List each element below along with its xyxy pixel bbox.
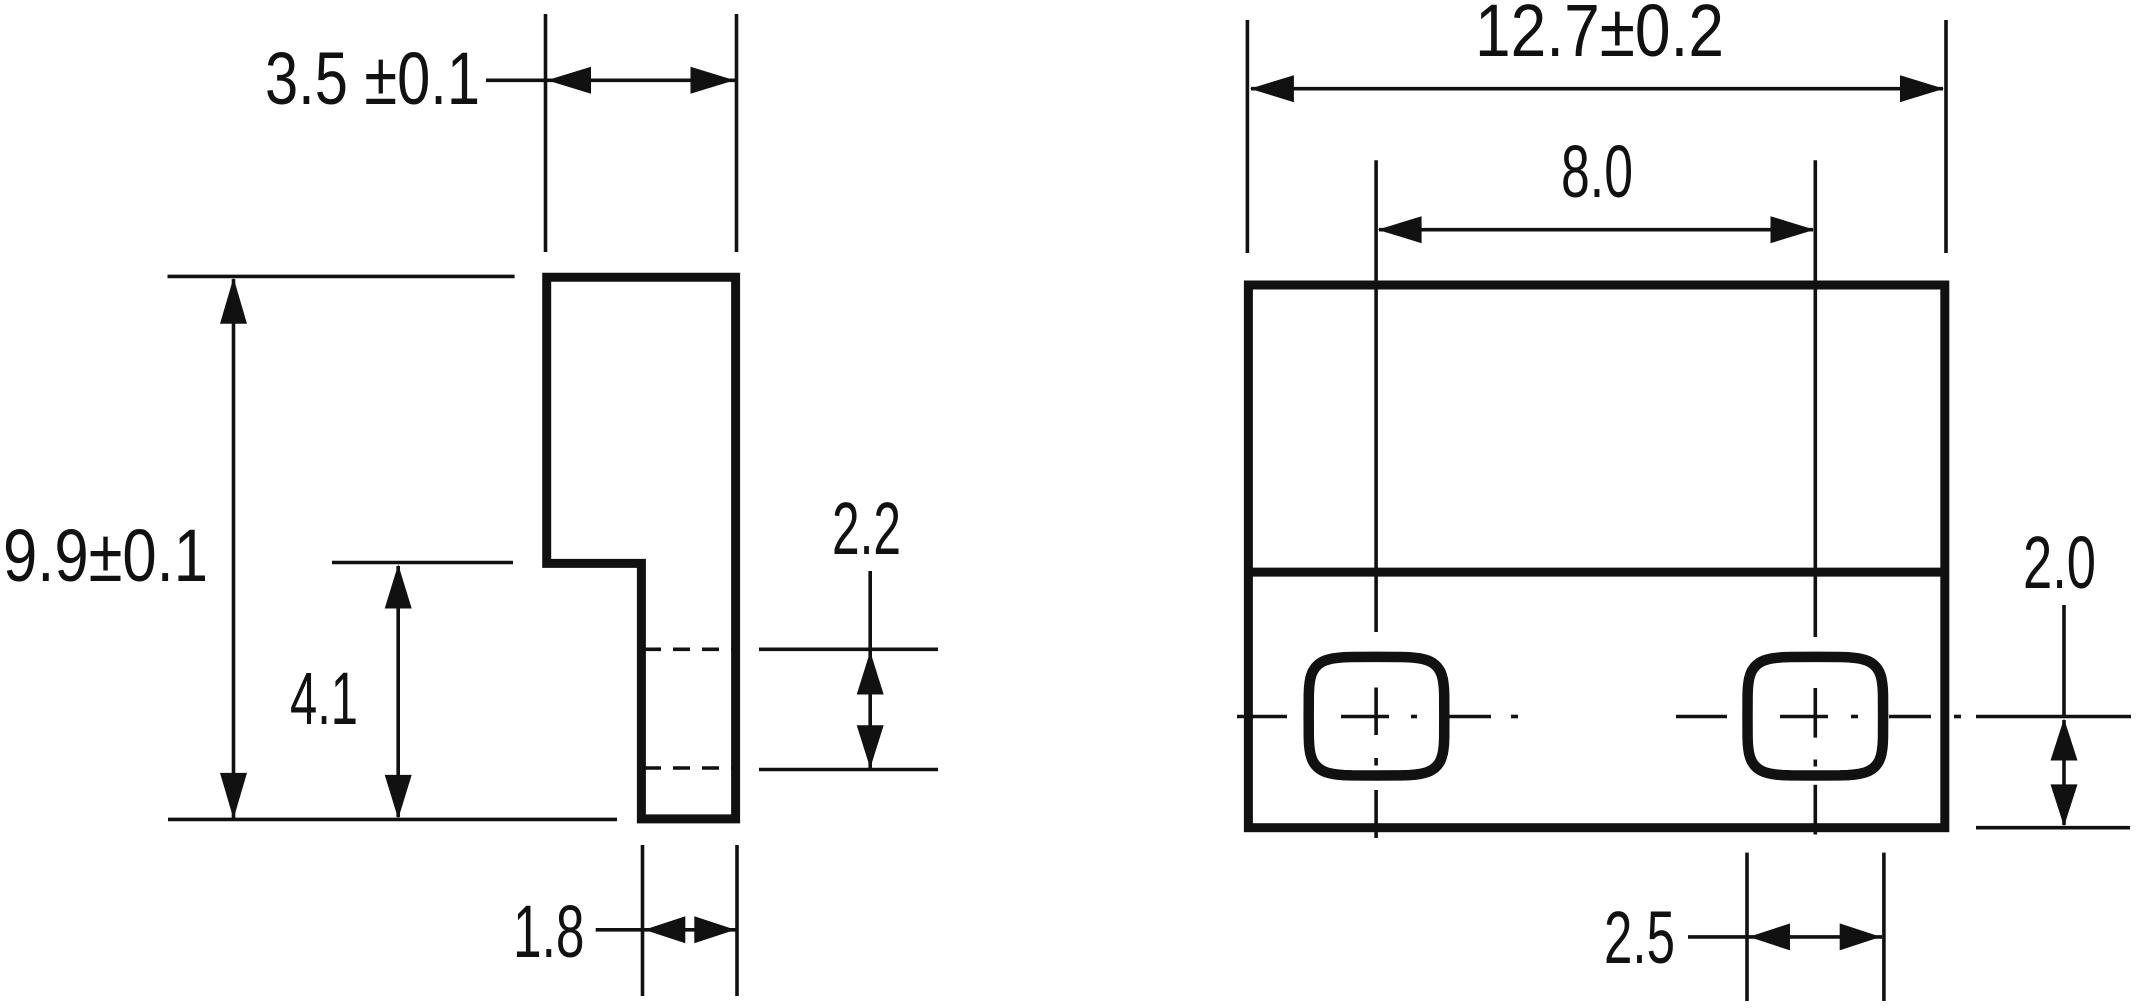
svg-text:2.0: 2.0 xyxy=(2023,521,2096,604)
svg-text:12.7±0.2: 12.7±0.2 xyxy=(1475,0,1724,72)
svg-text:2.5: 2.5 xyxy=(1604,896,1675,979)
svg-text:4.1: 4.1 xyxy=(290,657,358,740)
svg-text:3.5 ±0.1: 3.5 ±0.1 xyxy=(265,37,480,120)
svg-text:2.2: 2.2 xyxy=(832,487,901,570)
svg-text:1.8: 1.8 xyxy=(513,890,585,973)
svg-text:9.9±0.1: 9.9±0.1 xyxy=(3,514,208,597)
svg-text:8.0: 8.0 xyxy=(1561,130,1633,213)
